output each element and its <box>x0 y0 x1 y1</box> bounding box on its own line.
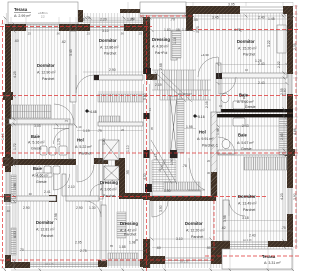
svg-text:.70: .70 <box>170 18 175 22</box>
X shaft <box>103 140 119 160</box>
svg-text:85: 85 <box>110 244 114 248</box>
svg-text:2.35: 2.35 <box>293 43 297 50</box>
pier lower wall left <box>4 194 13 202</box>
sink baie590 <box>233 101 245 109</box>
svg-text:4.75: 4.75 <box>234 28 241 32</box>
tick marks bottom chain <box>4 269 295 271</box>
svg-text:.90: .90 <box>120 32 124 36</box>
interior dim lines <box>11 31 293 240</box>
party wall right (double black) <box>216 109 293 112</box>
svg-text:2.75: 2.75 <box>80 249 87 253</box>
partition TL/TM bedrooms <box>70 31 76 102</box>
svg-text:Dormitor: Dormitor <box>99 38 117 43</box>
stair treads mid <box>177 99 184 153</box>
svg-text:2.43: 2.43 <box>258 81 265 85</box>
party wall mid block <box>119 193 150 199</box>
stair up-strip <box>172 30 181 58</box>
svg-text:Hol: Hol <box>77 138 84 143</box>
lower stair diagonals <box>151 140 177 184</box>
svg-text:26: 26 <box>121 128 125 132</box>
party wall right-of-stairs <box>150 196 216 201</box>
svg-text:Dormitor: Dormitor <box>237 39 255 44</box>
svg-text:1.25: 1.25 <box>255 59 262 63</box>
wardrobe hol522 small <box>99 116 120 123</box>
svg-text:1.10: 1.10 <box>182 28 189 32</box>
top wall right section <box>186 6 293 14</box>
svg-text:+5.16: +5.16 <box>196 115 205 119</box>
wall under TM bedroom <box>94 75 143 80</box>
window top 1 <box>26 25 59 30</box>
terasa side wall stub <box>78 10 83 22</box>
svg-text:Parchet: Parchet <box>243 53 255 57</box>
micro dims <box>6 32 249 249</box>
lower stair band <box>164 182 200 190</box>
svg-text:26: 26 <box>135 238 139 242</box>
svg-text:Dormitor: Dormitor <box>36 220 54 225</box>
svg-text:Dressing: Dressing <box>100 180 118 185</box>
svg-text:.55: .55 <box>193 18 198 22</box>
svg-text:3.18: 3.18 <box>242 216 249 220</box>
svg-text:Parchet: Parchet <box>42 77 54 81</box>
svg-text:Parchet: Parchet <box>191 235 203 239</box>
svg-text:3.03: 3.03 <box>34 124 41 128</box>
svg-text:Baie: Baie <box>31 134 41 139</box>
svg-text:Pal+Fol: Pal+Fol <box>155 51 167 55</box>
svg-text:2.22: 2.22 <box>277 61 281 68</box>
door baie567 <box>218 137 235 154</box>
wardrobe D1349 <box>244 157 287 170</box>
svg-text:1.90: 1.90 <box>170 158 174 165</box>
svg-text:1.17: 1.17 <box>154 153 158 160</box>
svg-text:A: 13.49 m²: A: 13.49 m² <box>238 202 257 206</box>
svg-text:4.00: 4.00 <box>13 231 17 238</box>
window left 2 <box>6 206 10 255</box>
terasa bottom-right box <box>222 249 292 269</box>
svg-text:A: 4.66 m²: A: 4.66 m² <box>32 174 49 178</box>
svg-text:4.66: 4.66 <box>293 128 297 135</box>
party wall vertical connector <box>99 140 103 199</box>
svg-text:2.19: 2.19 <box>155 83 162 87</box>
svg-text:.95: .95 <box>126 170 130 175</box>
top outer dim line <box>186 2 293 4</box>
svg-text:1.10: 1.10 <box>1 133 5 140</box>
svg-text:A: 2.99 m²: A: 2.99 m² <box>14 14 31 18</box>
bottom chain <box>11 269 293 271</box>
stair diagonal break <box>155 72 192 102</box>
svg-text:A: 9.91 m²: A: 9.91 m² <box>197 137 214 141</box>
lower stair strip <box>117 212 126 238</box>
svg-text:2.43: 2.43 <box>242 124 249 128</box>
door entry lower <box>189 158 205 190</box>
svg-text:4.25: 4.25 <box>13 71 17 78</box>
top chain <box>83 17 186 19</box>
svg-text:2.41: 2.41 <box>44 190 51 194</box>
svg-text:A: 5.67 m²: A: 5.67 m² <box>237 141 254 145</box>
svg-text:16x18.5/27: 16x18.5/27 <box>178 92 192 96</box>
tick marks right chain <box>283 13 286 249</box>
svg-text:95: 95 <box>150 126 154 130</box>
svg-text:30: 30 <box>207 171 211 175</box>
svg-text:2.43: 2.43 <box>249 234 256 238</box>
svg-text:1.75: 1.75 <box>57 138 61 145</box>
svg-text:Parchet: Parchet <box>202 144 214 148</box>
window right 2 <box>288 188 292 214</box>
radiator left window 2 <box>11 228 16 255</box>
svg-text:Parchet: Parchet <box>103 194 115 198</box>
svg-text:3.98: 3.98 <box>223 215 227 222</box>
svg-text:Parchet: Parchet <box>41 234 53 238</box>
svg-text:2.43: 2.43 <box>280 133 284 140</box>
svg-text:1.90: 1.90 <box>164 189 171 193</box>
X shaft lower <box>104 166 119 180</box>
svg-text:1.18: 1.18 <box>173 37 177 44</box>
svg-text:.60: .60 <box>14 39 19 43</box>
wardrobe TL <box>11 105 51 118</box>
door party wall <box>77 165 94 182</box>
svg-text:1.30: 1.30 <box>102 138 106 145</box>
svg-text:1.83: 1.83 <box>164 28 171 32</box>
svg-text:4.23: 4.23 <box>280 193 284 200</box>
svg-text:2.2: 2.2 <box>41 15 45 19</box>
step wall top middle <box>186 6 193 31</box>
svg-text:lan 2.75: lan 2.75 <box>45 263 54 266</box>
svg-text:.62: .62 <box>221 226 226 230</box>
pier wall1281 mid <box>49 195 57 202</box>
svg-text:A: 5.90 m²: A: 5.90 m² <box>237 100 254 104</box>
svg-text:1.10: 1.10 <box>126 145 130 152</box>
svg-text:1.30: 1.30 <box>89 206 96 210</box>
svg-text:.25: .25 <box>27 32 31 36</box>
left wall <box>5 24 11 268</box>
svg-text:.40: .40 <box>6 209 10 213</box>
wall hol522 bottom <box>98 122 143 126</box>
wall dormitor1520/baie590 <box>218 73 287 78</box>
svg-text:A: 12.81 m²: A: 12.81 m² <box>36 228 55 232</box>
svg-text:A: 3.06 m²: A: 3.06 m² <box>100 188 117 192</box>
svg-text:Dormitor: Dormitor <box>238 194 256 199</box>
svg-text:Baie: Baie <box>238 133 248 138</box>
terasa dim line <box>83 19 143 21</box>
shaft strip right <box>279 118 287 155</box>
svg-text:A: 12.90 m²: A: 12.90 m² <box>37 71 56 75</box>
window top 2 <box>90 25 124 30</box>
door baie516 <box>54 129 70 145</box>
toilet baie590 <box>221 93 229 102</box>
central spine wall <box>143 17 150 268</box>
svg-text:20: 20 <box>207 159 211 163</box>
left chain <box>13 24 15 268</box>
door dormitor1281 <box>85 201 101 217</box>
toilet baie516 <box>40 146 47 155</box>
light wall segment lower <box>143 200 150 239</box>
svg-text:Gresie: Gresie <box>245 105 256 109</box>
terasa top-left box <box>8 2 186 24</box>
extension lines horizontal to left chain <box>1 24 9 268</box>
svg-text:A: 4.30 m²: A: 4.30 m² <box>152 45 169 49</box>
svg-text:1.19: 1.19 <box>83 129 90 133</box>
svg-text:2.05: 2.05 <box>205 101 209 108</box>
svg-text:A: 5.22 m²: A: 5.22 m² <box>75 145 92 149</box>
svg-text:3.22: 3.22 <box>267 40 271 47</box>
svg-text:A: 5.16 m²: A: 5.16 m² <box>28 141 45 145</box>
svg-text:2.10: 2.10 <box>68 185 75 189</box>
wall under TL bedroom <box>9 119 70 124</box>
svg-text:Parchet: Parchet <box>79 152 91 156</box>
svg-text:Parchet: Parchet <box>243 208 255 212</box>
wall baie567/dormitor1349 <box>218 150 287 155</box>
stair wall upper <box>170 96 177 158</box>
pier hol/baie corner <box>216 73 222 79</box>
svg-text:1.10: 1.10 <box>76 125 82 129</box>
svg-text:3.90: 3.90 <box>293 193 297 200</box>
svg-text:A: 12.20 m²: A: 12.20 m² <box>186 229 205 233</box>
svg-text:.78: .78 <box>182 164 187 168</box>
extension lines vertical to top chain <box>5 2 293 31</box>
dressing430 wall <box>171 31 177 60</box>
wardrobe hol522 <box>98 94 143 102</box>
bottom wall right section + step corner <box>211 241 293 264</box>
svg-text:.90: .90 <box>28 192 32 196</box>
light wall segment mid <box>143 84 150 193</box>
terasa parapet piece <box>120 9 140 13</box>
radiator left window 1 <box>11 175 16 203</box>
svg-text:3.45: 3.45 <box>212 16 219 20</box>
partition dormitor1349/dormitor1220 <box>223 200 229 241</box>
svg-text:2.40: 2.40 <box>258 16 265 20</box>
door dormitor1349 <box>229 200 245 216</box>
svg-text:.25: .25 <box>86 32 90 36</box>
right chain <box>296 6 298 247</box>
svg-text:.25: .25 <box>138 32 142 36</box>
tick marks left chain <box>13 23 16 270</box>
svg-text:Baie: Baie <box>33 166 43 171</box>
svg-text:.70: .70 <box>19 248 24 252</box>
svg-text:2.20: 2.20 <box>100 18 107 22</box>
sink baie516 <box>59 146 67 155</box>
svg-text:1.73: 1.73 <box>196 26 200 33</box>
toilet baie567 <box>222 139 230 148</box>
svg-text:lan 2.08: lan 2.08 <box>243 239 252 242</box>
svg-text:+4.48: +4.48 <box>88 110 97 114</box>
window right 1 <box>288 74 292 94</box>
wall piece below dressing430 <box>146 74 157 80</box>
door entry upper <box>198 57 218 77</box>
svg-text:11: 11 <box>148 108 152 111</box>
bidet baie516 <box>49 147 56 155</box>
svg-text:1.45: 1.45 <box>268 17 275 21</box>
wall hol/baie590 vertical <box>216 63 221 112</box>
door dormitor1220 <box>152 201 168 217</box>
hatched deck band top-middle <box>140 13 186 18</box>
svg-text:Gresie: Gresie <box>241 147 252 151</box>
svg-text:+4.30: +4.30 <box>201 53 209 57</box>
svg-text:.62: .62 <box>61 40 66 44</box>
top wall left section <box>5 24 150 31</box>
svg-text:2.90: 2.90 <box>23 206 30 210</box>
svg-text:2.90: 2.90 <box>76 206 83 210</box>
wall above dormitor1281 <box>11 196 99 201</box>
svg-text:.75: .75 <box>281 226 286 230</box>
svg-text:Parchet: Parchet <box>104 52 116 56</box>
bidet baie466 <box>53 166 60 174</box>
extension lines to right chain <box>293 6 298 247</box>
baie466/hol divider <box>62 174 66 196</box>
toilet baie466 <box>44 166 51 175</box>
right wall <box>287 6 293 247</box>
svg-text:.90: .90 <box>56 32 60 36</box>
svg-text:3.45: 3.45 <box>69 49 73 56</box>
svg-text:5.80: 5.80 <box>143 93 147 100</box>
sink baie567 <box>233 118 245 126</box>
svg-text:1.72: 1.72 <box>13 143 17 150</box>
svg-text:Parchet: Parchet <box>124 233 136 237</box>
svg-text:lan 2.96: lan 2.96 <box>180 261 189 264</box>
svg-text:.79: .79 <box>97 129 102 133</box>
svg-text:Terasa: Terasa <box>14 7 28 12</box>
svg-text:Dormitor: Dormitor <box>185 221 203 226</box>
svg-text:Hol: Hol <box>199 130 206 135</box>
svg-text:Dormitor: Dormitor <box>37 63 55 68</box>
bottom wall mid section <box>143 253 223 264</box>
svg-text:1.88: 1.88 <box>119 245 126 249</box>
bottom wall left section <box>5 253 146 268</box>
extension lines to bottom chain <box>5 247 293 271</box>
svg-text:.50: .50 <box>206 246 211 250</box>
pillar left wall party <box>3 157 13 166</box>
svg-text:15: 15 <box>176 28 180 32</box>
svg-text:17: 17 <box>215 143 219 147</box>
svg-text:2.98: 2.98 <box>54 213 58 220</box>
svg-text:.76: .76 <box>80 18 85 22</box>
svg-text:3.10: 3.10 <box>102 29 109 33</box>
svg-text:4.30: 4.30 <box>143 173 147 180</box>
svg-text:Baie: Baie <box>239 93 249 98</box>
door TM bedroom <box>76 75 94 93</box>
svg-text:A: 15.20 m²: A: 15.20 m² <box>238 47 257 51</box>
baie516/hol divider <box>69 124 73 159</box>
svg-text:1.98: 1.98 <box>186 125 193 129</box>
svg-text:Gresie: Gresie <box>31 147 42 151</box>
dimension texts <box>14 16 286 266</box>
svg-text:Gresie: Gresie <box>36 180 47 184</box>
svg-text:2.90: 2.90 <box>109 68 116 72</box>
sink baie466 <box>36 173 52 177</box>
partition dormitor1281/dressing442 <box>101 205 106 261</box>
svg-text:.60: .60 <box>156 246 161 250</box>
svg-text:3.10: 3.10 <box>176 237 183 241</box>
svg-text:3.90: 3.90 <box>159 205 163 212</box>
svg-text:1.48: 1.48 <box>216 128 220 135</box>
svg-text:.75: .75 <box>64 119 68 123</box>
window left 1 <box>6 172 10 205</box>
svg-text:A: 12.86 m²: A: 12.86 m² <box>100 46 119 50</box>
svg-text:2.68: 2.68 <box>159 63 163 70</box>
door dressing306 <box>90 184 102 196</box>
svg-text:Terasa: Terasa <box>262 254 276 259</box>
pillar left wall axis B <box>3 92 13 100</box>
svg-text:Dressing: Dressing <box>152 37 170 42</box>
stairwell divider wall <box>211 112 217 196</box>
door baie466 <box>54 174 70 190</box>
wardrobe dormitor1520 <box>277 25 286 53</box>
party wall left <box>11 159 76 165</box>
svg-text:.60: .60 <box>130 17 135 21</box>
door baie590 <box>219 77 236 94</box>
tick marks top chain <box>4 15 295 20</box>
svg-text:Dressing: Dressing <box>120 221 138 226</box>
svg-text:3.05: 3.05 <box>228 3 235 7</box>
svg-text:10: 10 <box>245 68 249 72</box>
svg-text:1.98: 1.98 <box>13 183 17 190</box>
svg-text:A: 3.31 m²: A: 3.31 m² <box>264 261 281 265</box>
wall above dormitor1220 <box>152 191 201 196</box>
svg-text:.90: .90 <box>99 158 103 162</box>
pillar right wall <box>285 149 295 156</box>
svg-text:2.05: 2.05 <box>75 241 82 245</box>
door TL bedroom <box>54 104 74 124</box>
svg-text:15: 15 <box>219 104 223 108</box>
svg-text:+2.80 m: +2.80 m <box>38 11 47 15</box>
svg-text:2.55: 2.55 <box>280 88 284 95</box>
